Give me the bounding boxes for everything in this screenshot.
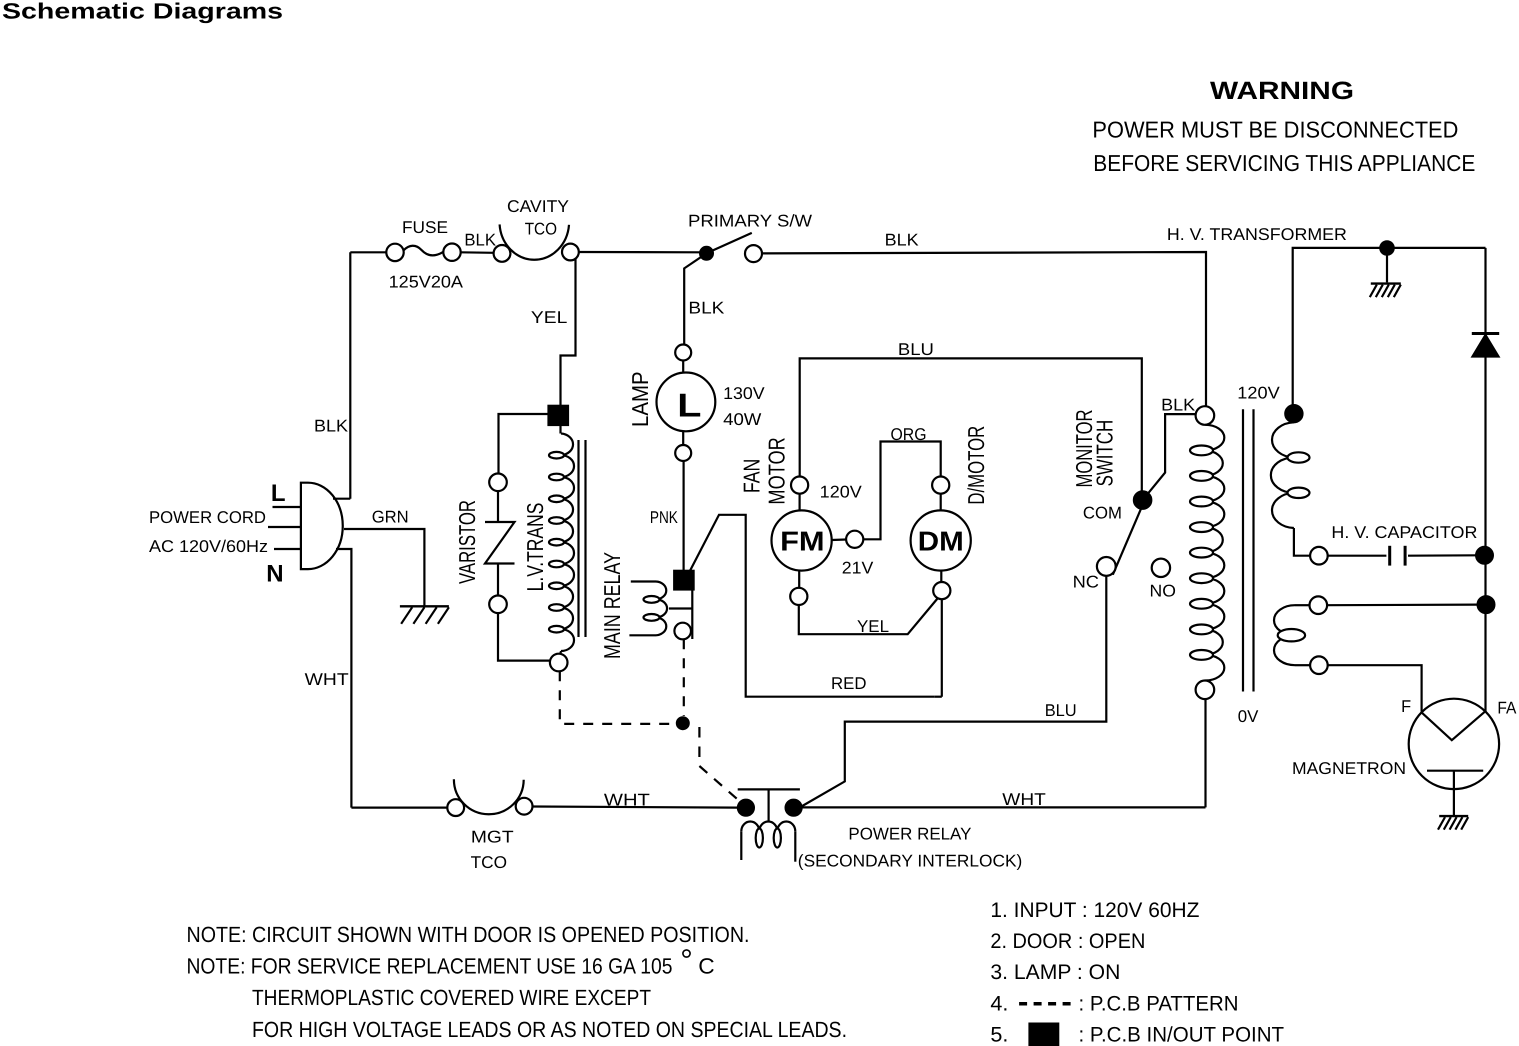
svg-text:WHT: WHT xyxy=(305,670,349,689)
wire MGT TCO to power relay xyxy=(533,807,738,808)
svg-text:BLU: BLU xyxy=(898,340,934,359)
svg-text:NO: NO xyxy=(1150,581,1176,600)
wire ORG fan to drive motor xyxy=(863,442,940,540)
filament winding xyxy=(1295,604,1310,606)
drive motor bottom stub xyxy=(940,571,942,582)
svg-text:FUSE: FUSE xyxy=(402,218,448,237)
wire filament top to FA xyxy=(1327,603,1478,606)
svg-text:NC: NC xyxy=(1073,572,1099,591)
capacitor junction dot xyxy=(1476,547,1493,564)
H.V. capacitor xyxy=(1328,555,1387,557)
svg-text:WARNING: WARNING xyxy=(1210,77,1354,105)
wire WHT left vertical xyxy=(336,549,351,808)
main relay contact circle xyxy=(674,623,691,640)
svg-text:FA: FA xyxy=(1497,698,1517,717)
filament winding top terminal xyxy=(1310,596,1328,614)
svg-text:DM: DM xyxy=(918,526,964,557)
chassis ground (magnetron) xyxy=(1439,815,1468,817)
svg-text:LAMP: LAMP xyxy=(627,371,653,427)
monitor switch NO contact xyxy=(1152,559,1170,577)
fan motor bottom stub xyxy=(798,571,800,588)
plug terminal stubs xyxy=(273,506,301,508)
svg-text:POWER MUST BE DISCONNECTED: POWER MUST BE DISCONNECTED xyxy=(1092,117,1458,143)
svg-text:L: L xyxy=(677,387,701,424)
svg-text:4.: 4. xyxy=(990,992,1008,1015)
drive motor top terminal xyxy=(932,477,949,494)
main relay moving contact path xyxy=(691,590,693,640)
svg-text:40W: 40W xyxy=(723,410,761,429)
svg-text:: P.C.B IN/OUT POINT: : P.C.B IN/OUT POINT xyxy=(1079,1024,1285,1046)
wire BLU top xyxy=(800,358,1142,491)
chassis ground (H.V.) xyxy=(1371,282,1401,284)
svg-text:FAN: FAN xyxy=(738,459,764,493)
wire cavity TCO to primary switch xyxy=(579,251,701,254)
filament junction dot xyxy=(1478,596,1495,613)
svg-text:TCO: TCO xyxy=(471,853,507,872)
H.V. transformer primary bottom terminal xyxy=(1196,681,1215,700)
magnetron filament V xyxy=(1421,712,1485,741)
magnetron anode plate xyxy=(1427,770,1483,772)
svg-text:BLK: BLK xyxy=(885,231,920,250)
wire varistor top xyxy=(499,414,549,474)
H.V. transformer primary top terminal xyxy=(1196,406,1215,425)
cavity TCO xyxy=(494,245,511,262)
svg-text:CAVITY: CAVITY xyxy=(507,197,569,216)
svg-text:BLK: BLK xyxy=(1161,396,1196,415)
wire xyxy=(682,361,684,373)
wire fuse to cavity TCO xyxy=(461,251,494,254)
svg-text:WHT: WHT xyxy=(604,791,650,810)
main relay contact PCB point xyxy=(674,571,693,590)
H.V. diode xyxy=(1472,332,1499,335)
wire WHT right xyxy=(802,806,1206,808)
svg-text:SWITCH: SWITCH xyxy=(1092,420,1118,487)
svg-text:MOTOR: MOTOR xyxy=(764,437,790,504)
MGT TCO xyxy=(447,799,464,816)
monitor switch common dot xyxy=(1134,491,1151,508)
monitor switch lever to BLK xyxy=(1143,414,1196,500)
monitor switch NC contact xyxy=(1097,557,1116,576)
junction RED wire corner xyxy=(934,696,942,698)
svg-text:L.V.TRANS: L.V.TRANS xyxy=(522,503,548,592)
svg-text:D/MOTOR: D/MOTOR xyxy=(963,426,989,505)
L.V. trans bottom terminal xyxy=(553,651,561,658)
svg-text:21V: 21V xyxy=(842,558,874,577)
wire left vertical BLK xyxy=(349,252,351,498)
svg-text:RED: RED xyxy=(831,674,867,693)
wire ground stem xyxy=(1386,255,1388,283)
wire GRN to ground xyxy=(344,529,424,606)
secondary output terminal xyxy=(1310,547,1328,565)
H.V. transformer primary coil xyxy=(1205,425,1224,681)
drive motor bottom terminal xyxy=(933,582,950,599)
wire H.V. transformer top xyxy=(1293,248,1486,413)
svg-text:BLK: BLK xyxy=(688,299,725,318)
main relay coil xyxy=(656,582,667,636)
secondary top junction dot xyxy=(1285,405,1302,422)
wire primary switch to H.V. transformer drop xyxy=(762,252,1206,407)
svg-text:120V: 120V xyxy=(820,482,863,501)
L.V. trans primary coil xyxy=(561,434,574,652)
wire primary bottom to WHT xyxy=(1204,699,1206,807)
lamp terminal circle bottom xyxy=(675,445,691,461)
fan motor bottom terminal xyxy=(790,588,807,605)
svg-text:WHT: WHT xyxy=(1002,790,1046,809)
svg-text:3. LAMP : ON: 3. LAMP : ON xyxy=(990,961,1120,984)
svg-text:COM: COM xyxy=(1083,504,1122,523)
svg-text:MAIN RELAY: MAIN RELAY xyxy=(599,552,625,659)
wire bottom WHT left xyxy=(351,806,447,808)
svg-text:C: C xyxy=(698,954,715,979)
wire filament bottom to F xyxy=(1328,665,1422,711)
svg-text:MAGNETRON: MAGNETRON xyxy=(1292,759,1406,778)
drive motor DM xyxy=(911,510,971,570)
fan motor top terminal xyxy=(791,477,808,494)
wire xyxy=(682,431,684,445)
svg-text:POWER CORD: POWER CORD xyxy=(149,508,266,527)
main relay lever to RED wire xyxy=(690,515,934,697)
dashed PCB pattern to power relay xyxy=(699,727,744,805)
svg-text:BLK: BLK xyxy=(314,417,349,436)
varistor terminal circle top xyxy=(489,474,507,492)
PCB pattern junction dot xyxy=(677,717,689,729)
power cord plug xyxy=(301,483,343,569)
main relay coil leads xyxy=(631,580,656,582)
svg-text:FM: FM xyxy=(780,526,825,557)
L.V. trans core xyxy=(577,440,579,637)
svg-text:: P.C.B PATTERN: : P.C.B PATTERN xyxy=(1079,992,1239,1015)
wire BLU bottom from NC xyxy=(801,576,1107,807)
wire YEL from cavity TCO down to PCB point xyxy=(561,259,576,406)
wire RED drive motor down xyxy=(941,599,943,697)
H.V. diode branch vertical xyxy=(1484,248,1486,712)
svg-text:L: L xyxy=(271,480,286,507)
fan motor FM xyxy=(772,510,832,570)
svg-text:AC 120V/60Hz: AC 120V/60Hz xyxy=(149,537,268,556)
svg-text:THERMOPLASTIC COVERED WIRE EXC: THERMOPLASTIC COVERED WIRE EXCEPT xyxy=(252,985,651,1010)
lamp terminal circle top xyxy=(675,345,691,361)
fan motor 21V tap circle xyxy=(832,538,846,541)
lamp L 130V 40W xyxy=(657,373,716,432)
svg-text:125V20A: 125V20A xyxy=(389,273,464,292)
monitor switch lever to NC xyxy=(1113,505,1143,575)
svg-text:FOR HIGH VOLTAGE LEADS OR AS N: FOR HIGH VOLTAGE LEADS OR AS NOTED ON SP… xyxy=(252,1017,847,1042)
switch common node (filled) xyxy=(700,247,713,260)
svg-text:NOTE: CIRCUIT SHOWN WITH DOOR: NOTE: CIRCUIT SHOWN WITH DOOR IS OPENED … xyxy=(187,922,750,947)
svg-text:BLU: BLU xyxy=(1045,701,1077,720)
earth ground (GRN) xyxy=(400,605,449,607)
wire top-left horizontal to fuse xyxy=(350,251,386,253)
switch lever xyxy=(707,233,752,253)
svg-text:ORG: ORG xyxy=(891,425,927,444)
svg-text:(SECONDARY INTERLOCK): (SECONDARY INTERLOCK) xyxy=(798,851,1023,870)
svg-text:YEL: YEL xyxy=(857,617,889,636)
svg-text:Schematic Diagrams: Schematic Diagrams xyxy=(2,0,283,24)
wire YEL fan to drive motor xyxy=(799,599,938,635)
switch contact circle xyxy=(745,245,762,262)
wire secondary to H.V. capacitor circle xyxy=(1294,528,1310,556)
svg-text:H. V. TRANSFORMER: H. V. TRANSFORMER xyxy=(1167,225,1347,244)
H.V. ground junction dot xyxy=(1380,241,1393,254)
wire lamp to main relay contact xyxy=(682,461,684,571)
svg-text:YEL: YEL xyxy=(531,308,567,327)
svg-text:F: F xyxy=(1401,697,1411,716)
wire plug top terminal to left vertical xyxy=(333,498,350,500)
svg-text:POWER RELAY: POWER RELAY xyxy=(848,824,971,843)
svg-text:120V: 120V xyxy=(1237,383,1280,402)
dashed PCB pattern from main relay xyxy=(683,639,685,716)
svg-text:0V: 0V xyxy=(1238,707,1259,726)
varistor symbol xyxy=(497,491,499,522)
magnetron xyxy=(1409,699,1499,789)
svg-text:PRIMARY S/W: PRIMARY S/W xyxy=(688,211,812,230)
dashed PCB pattern from L.V. trans xyxy=(560,671,676,724)
svg-text:PNK: PNK xyxy=(650,508,679,527)
svg-text:NOTE: FOR SERVICE REPLACEMENT: NOTE: FOR SERVICE REPLACEMENT USE 16 GA … xyxy=(187,954,673,979)
H.V. transformer core xyxy=(1242,409,1244,691)
svg-text:130V: 130V xyxy=(723,384,765,403)
power relay coil xyxy=(740,831,742,860)
svg-text:MGT: MGT xyxy=(471,827,514,846)
svg-text:N: N xyxy=(266,561,283,588)
power relay contacts xyxy=(738,800,754,816)
fuse xyxy=(386,244,403,261)
svg-text:2. DOOR : OPEN: 2. DOOR : OPEN xyxy=(990,930,1145,953)
svg-text:VARISTOR: VARISTOR xyxy=(454,500,480,584)
varistor terminal circle bottom xyxy=(489,596,507,614)
svg-text:H. V. CAPACITOR: H. V. CAPACITOR xyxy=(1331,523,1477,542)
power relay armature T xyxy=(738,788,800,790)
svg-text:1. INPUT : 120V 60HZ: 1. INPUT : 120V 60HZ xyxy=(990,899,1199,922)
wire switch to lamp (diagonal+vertical) xyxy=(684,253,706,344)
svg-text:BEFORE SERVICING THIS APPLIANC: BEFORE SERVICING THIS APPLIANCE xyxy=(1093,150,1475,176)
filament winding bottom terminal xyxy=(1310,656,1328,674)
PCB in/out point (above L.V. trans) xyxy=(549,406,569,425)
svg-text:GRN: GRN xyxy=(372,508,409,527)
svg-text:5.: 5. xyxy=(990,1024,1008,1046)
wire varistor bottom xyxy=(498,613,550,661)
svg-text:TCO: TCO xyxy=(525,220,557,239)
svg-text:BLK: BLK xyxy=(464,231,496,250)
H.V. secondary coil (120V) xyxy=(1271,422,1294,528)
